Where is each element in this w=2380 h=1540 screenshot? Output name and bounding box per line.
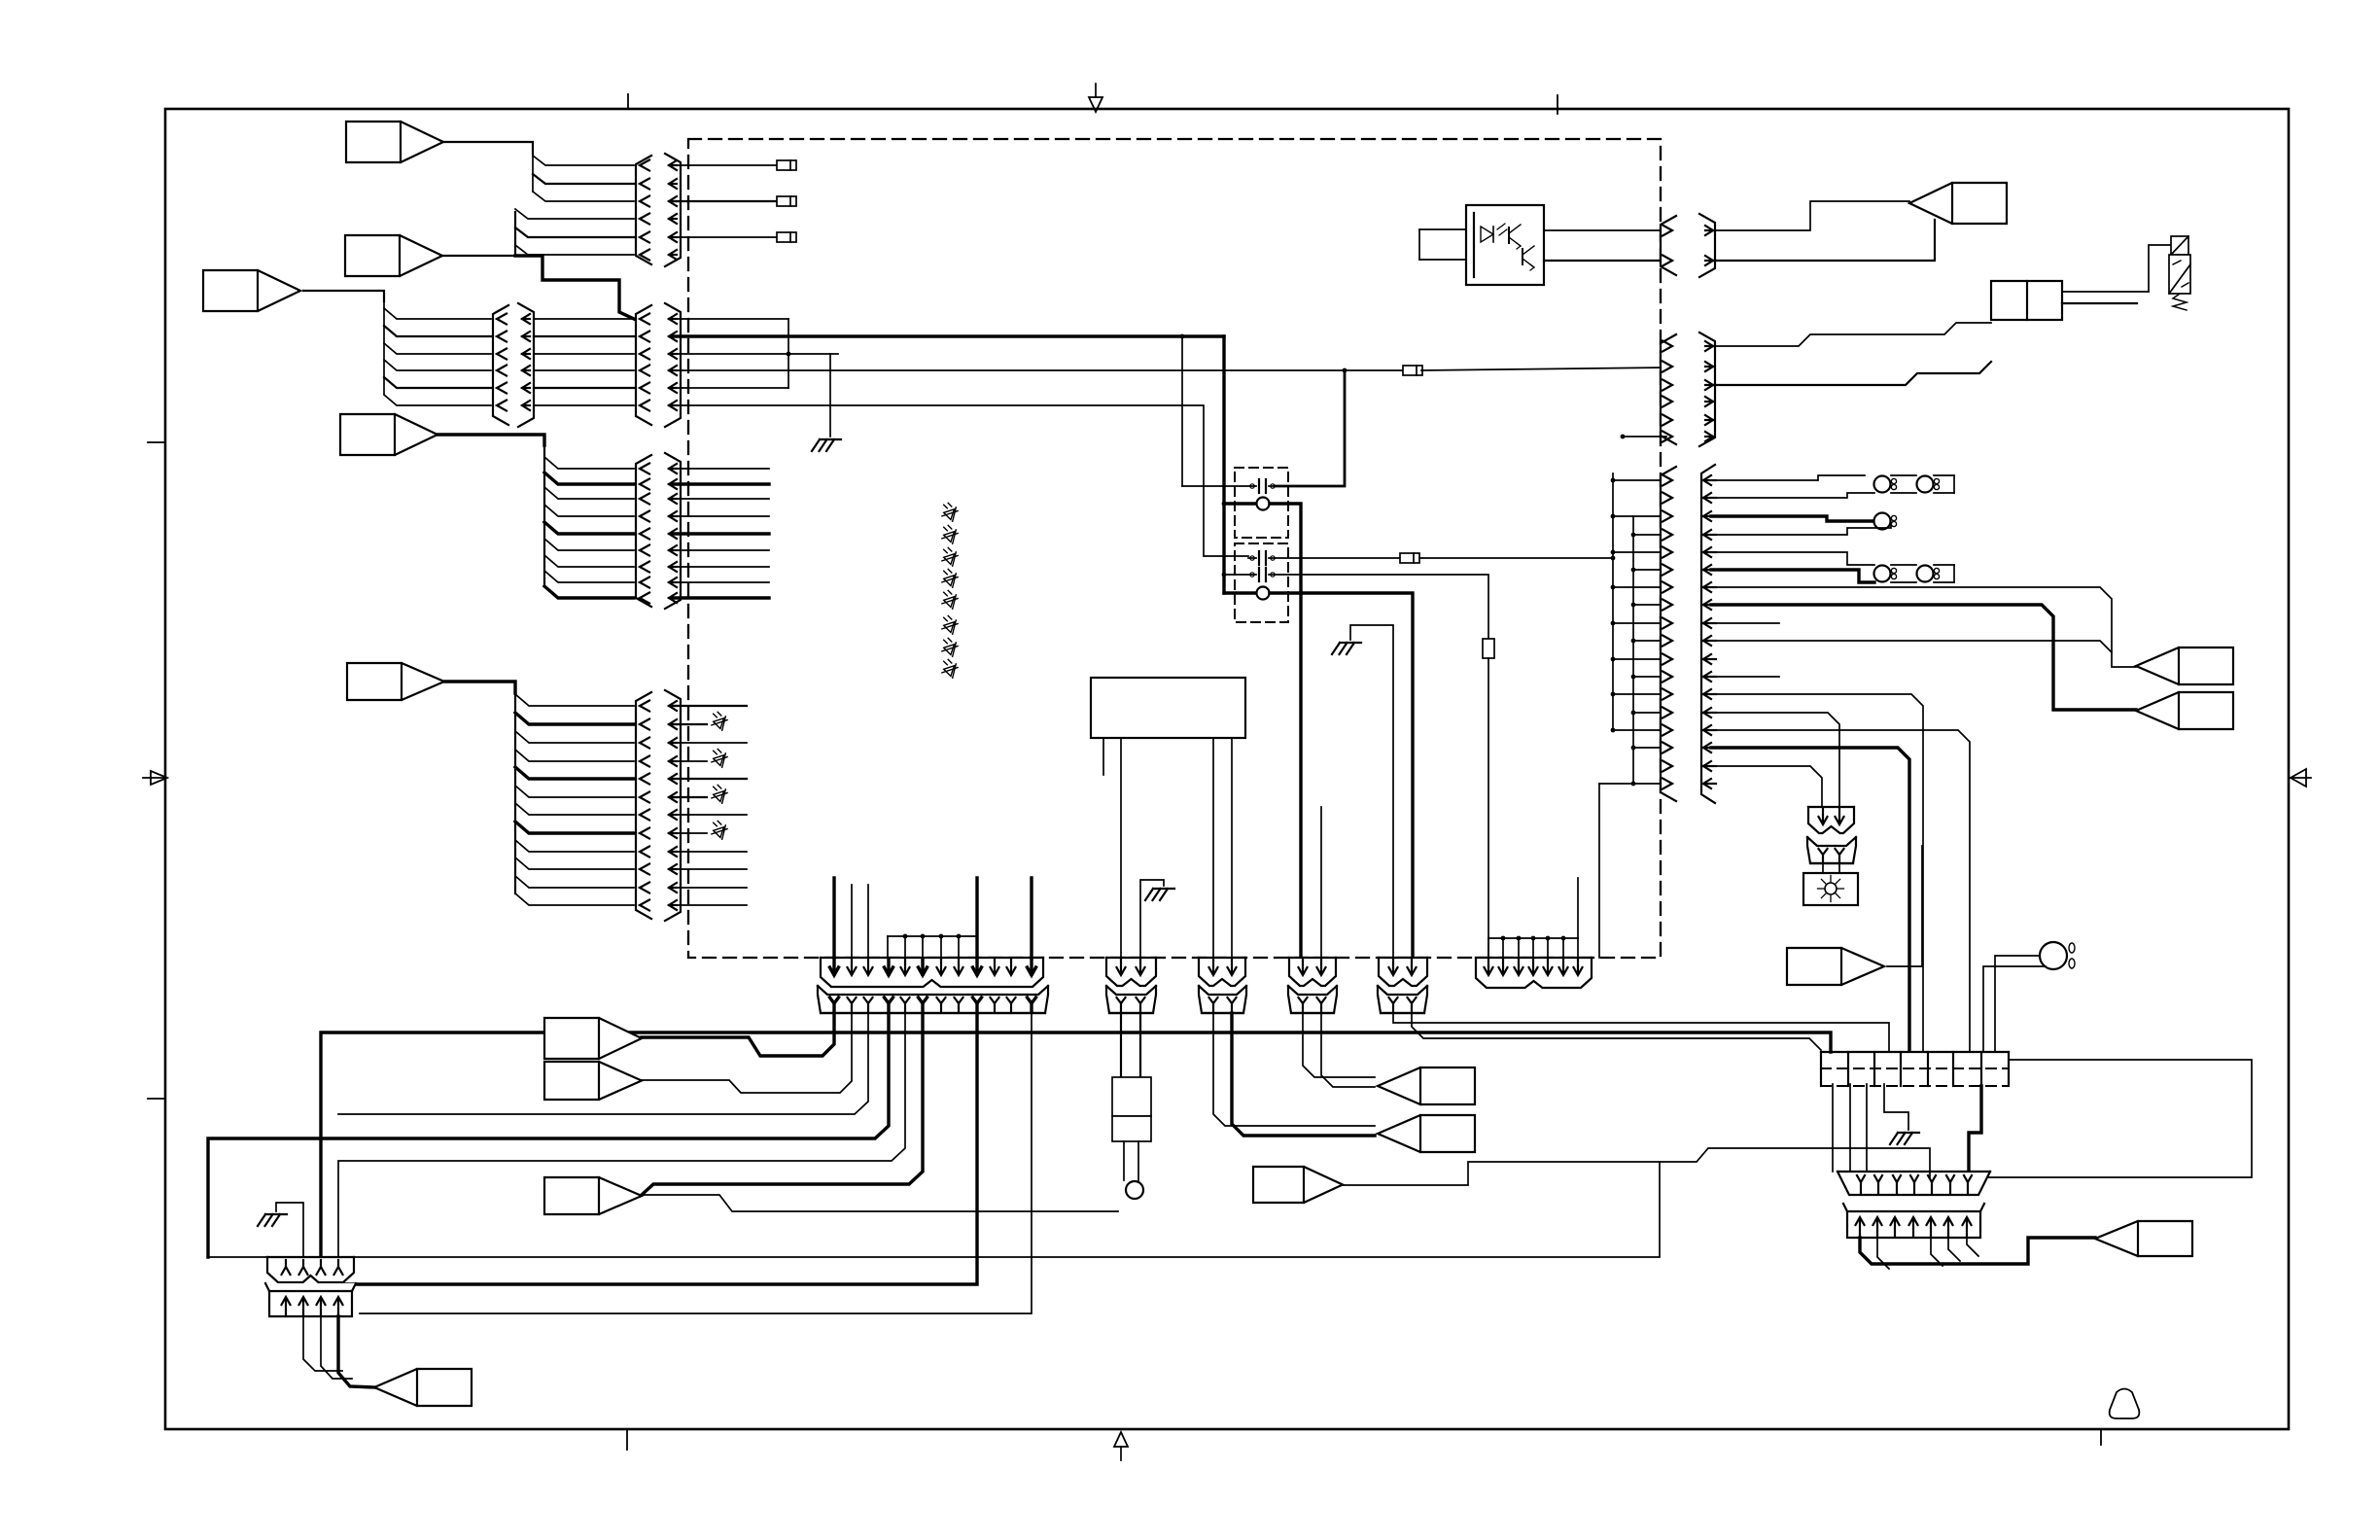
wire CN-C4-1 to terminal strip [1393,1013,1889,1052]
wire CN7-3 to M3 (thick) [1711,516,1874,521]
cable label W1 top-left [346,122,443,162]
wire bundle label W1 to CN1 [533,156,634,165]
connector CN11 (bottom right) [1837,1172,1990,1195]
wide connector CN-C5 [1476,958,1592,988]
fuse F4 [1483,639,1494,658]
connector CN4 plug [636,692,651,919]
temperature probe tip [1126,1181,1143,1199]
TB1 cell divider [1873,1052,1875,1086]
connector CN1 plug [636,156,651,264]
wire riser to thermal cutouts (thick) [1222,336,1225,593]
label W-A (mid bottom) [544,1018,642,1059]
risers into CN5a [832,878,835,958]
cable label W9 (fan feed) [1787,948,1884,985]
wire W13 to bus [1343,1148,1930,1185]
ground G4 hook [1884,1084,1908,1130]
TB1 cell divider [1820,1052,1822,1086]
U1 outputs to CN6 [1544,229,1664,231]
filter module dashed box lower [1235,543,1288,622]
wire W-A to CN5b-1 (thick) [642,1014,834,1056]
wire cap C-B to fuse holder R2 [1275,557,1400,559]
thermal cutout TH1 [1257,498,1270,510]
wire CN6-2 riser [1711,220,1935,261]
thermal cutout TH2 [1257,587,1270,600]
solid state relay U1 box [1466,205,1544,285]
wire net A3 with ground tap [673,353,838,355]
wire CN-C2-1 to label W12 [1213,1013,1375,1126]
connector CN13 (bottom left) [267,1257,354,1282]
wire CN7-17 drop to CN8 [1711,766,1822,807]
bus BB tap [1633,534,1666,536]
pump motor M1 [1874,476,1891,493]
wire CN1-5 to terminal [673,236,777,238]
bus BA tap [1613,658,1666,660]
indicator LED D10 [673,723,707,725]
relay K1 outputs to CN-C2 [1212,738,1214,958]
wire CN5b-6 to label W-C (thick) [642,1014,923,1195]
comb bus over CN-C5 [1488,937,1578,939]
wire CN-C3-2 to label W11 [1321,1013,1375,1087]
connector CN3 plug [636,455,651,607]
bus BA tap [1613,729,1666,731]
cable label W11 [1378,1067,1475,1104]
controller PCB dashed outline [688,139,1661,958]
stub wire CN7-12 [1716,676,1779,678]
cable label W7 (right) [2136,647,2233,684]
wire W-C lower branch [642,1195,1118,1211]
board LED D5 [944,597,955,608]
wire CN7-8 long to label W8 (thick) [1711,605,2136,710]
main bottom bus [208,1162,1660,1257]
capacitor C-A [1182,485,1256,487]
inline resistor R-B [1400,553,1419,563]
cable label W5 (row4 feed) [347,663,444,700]
wire CN7-16 drop to terminal strip (thick) [1711,748,1909,1052]
bus tap to CN10-6 [1623,436,1666,437]
probe leads [1123,1141,1125,1180]
wire CN7-1 to pump motors [1711,475,1865,480]
capacitor C-B [1248,557,1256,559]
wire fuse F2 to CN10-2 [1421,367,1666,370]
wire CN1-3 to terminal [673,200,777,202]
mini connector CN-C3 [1289,958,1336,986]
mini connector CN-C2 [1199,958,1245,986]
TB1 drops to CN11 [1832,1084,1834,1172]
pressure switch PS1 spring [2173,294,2187,310]
wires CN12 to label W10 [1860,1238,2095,1264]
wire CN10-3 to junction box [1711,362,1991,385]
wire R-B to bus BA [1419,557,1613,559]
frame tick left upper [148,441,165,443]
ground G1 [820,438,841,440]
bus BB tap [1633,640,1666,642]
wire CN10-1 to junction box [1711,323,1991,346]
wires X1 to pressure switch PS1 [2062,291,2149,293]
connector CN5b wide mate [818,986,1048,995]
frame alignment arrow right center [2289,777,2311,779]
wire CN5b-5 long left [338,1014,905,1257]
pump motor M3 [1874,513,1891,530]
U1 output transistor Q2 [1522,249,1523,264]
wire CN5b-12 long left [360,1014,1032,1313]
relay unit K1 box [1091,678,1245,738]
service mark triangle [2110,1389,2140,1419]
ground G4 [1898,1132,1919,1134]
pressure switch PS1 body [2169,255,2190,294]
TH1 left lead [1224,502,1254,505]
long bus bottom (thick) [321,1032,1831,1257]
connector CN10 plug [1661,334,1676,444]
stub wires CN3 to board [673,468,769,470]
condenser fan FM1 [2040,942,2067,969]
wire cap C-C to fuse F4 [1275,575,1488,639]
frame alignment arrow top center [1095,84,1097,97]
board LED D6 [944,622,955,633]
bus BA tap [1613,622,1666,624]
board LED D2 [944,532,955,542]
pump motor M5 [1917,566,1934,582]
lamp LP1 [1825,883,1837,894]
bus BB tap [1633,712,1666,714]
bus BB tap [1633,604,1666,606]
terminal strip TB1 [1821,1052,2009,1086]
capsule M4-M5 [1891,564,1916,566]
cable label W12 [1378,1115,1475,1152]
wire CN7-13 drop to terminal strip [1711,694,1923,1052]
wire CN7-4 to M3 return [1711,525,1891,535]
mini connector CN-C1 [1106,958,1156,986]
wire label W9 riser [1887,846,1922,966]
wire CN5b-4 long left (thick) [208,1014,889,1257]
pump motor M4 [1874,566,1891,582]
TB1 cell divider [1980,1052,1982,1086]
wire riser to filter cap C-A [1181,336,1183,486]
connector CN10 receptacle [1699,332,1715,446]
terminal lug J3 [777,232,796,242]
bus BA tap [1613,551,1666,553]
wire bundle label W2 to CN1 [442,212,515,256]
wire net A4 to fuse F2 [673,369,1403,371]
TB1 cell divider [1847,1052,1849,1086]
board LED D7 [944,645,955,655]
bus BB tap [1633,783,1666,785]
connector CN2b plug [636,305,651,425]
ground G5 [265,1213,287,1215]
mini connector CN-C3 mate [1288,986,1337,995]
board LED D4 [944,576,955,586]
cable label W3 [203,270,300,311]
connector CN8 mate [1807,837,1856,846]
TB1 cell divider [1900,1052,1902,1086]
mini connector CN-C1 mate [1106,986,1156,995]
TB1 cell divider [1952,1052,1954,1086]
label W13 (lower mid) [1253,1167,1343,1203]
drawing frame border [165,109,2289,1429]
frame tick top left-quarter [627,94,629,109]
bus BA tap [1613,479,1666,481]
bus BA tap [1613,586,1666,588]
TB1 drop right (thick) [1969,1086,1981,1178]
riser above CN-C3 pin2 [1320,807,1322,958]
connector CN3 receptacle [665,453,681,609]
U1 input stubs [1419,228,1466,230]
bus BB exit bottom [1599,783,1633,785]
connector CN6 plug [1661,216,1676,275]
TH2 left lead [1224,591,1254,594]
frame alignment arrow left center [143,777,165,779]
indicator LED D13 [673,832,707,834]
wire from label W1 [443,142,533,154]
connector CN2b receptacle [665,303,681,427]
label W-C [544,1177,642,1214]
indicator LED D11 [673,760,707,762]
frame tick bottom right [2100,1429,2102,1445]
frame alignment arrow bottom center [1120,1447,1122,1460]
cable label W4 (row3 feed) [340,414,437,455]
wire CN1-1 to terminal [673,164,777,166]
relay K1 pin stub [1102,738,1104,775]
lamp unit box [1822,863,1824,873]
terminal lug J2 [777,196,796,206]
riser above CN-C5 pin7 [1577,878,1579,938]
wire CN7-5 to M4 upper [1711,552,1874,565]
wire W-B to CN5b-2 [642,1014,852,1093]
connector CN2a receptacle [518,303,534,427]
ground G1 stem [829,354,831,437]
wires CN14 to label W14 (thick) [303,1316,342,1371]
capsule M1-M2 [1891,474,1916,476]
cable label W2 [345,235,442,276]
ground G5 hook [276,1203,303,1257]
wire CN-C3-1 to label W11 [1303,1013,1375,1077]
connector CN12 (bottom right mate) [1843,1204,1984,1238]
right loop wire [1985,1060,2252,1177]
label W-B [544,1062,642,1100]
connector CN4 receptacle [665,690,681,921]
TH1 lead right (thick) [1270,504,1301,958]
wire CN7-10 joins W7 riser [1711,641,2112,652]
wire net A5 [673,387,788,389]
wire bundle label W3 to CN2 [303,291,384,301]
connector CN5a wide (PCB bottom) [821,958,1043,987]
connector CN7 plug [1661,467,1676,801]
wire F4 down to CN-C5 [1487,658,1489,958]
wire CN6-1 to label W6 [1711,201,1909,230]
bus bar BB left of CN7 [1632,516,1634,784]
inline fuse F2 [1403,366,1422,375]
wire CN5b-3 long left [338,1014,868,1114]
connector CN1 receptacle [665,154,681,266]
ground G3 [1153,888,1174,890]
wire CN-C4-2 to terminal strip [1412,1013,1821,1050]
capacitor C-C [1224,574,1256,576]
bus BA tap [1613,693,1666,695]
U1 phototransistor Q1 [1508,227,1510,243]
wire CN7-15 drop to terminal strip [1711,730,1970,1052]
capacitor C-A return riser (thick) [1275,370,1345,486]
frame tick bottom left-quarter [626,1429,628,1450]
terminal lug J1 [777,160,796,170]
board LED D8 [944,666,955,677]
fuse holder F1 body [1112,1077,1151,1116]
ground G3 hook [1140,880,1164,958]
cable label W8 (right) [2136,692,2233,729]
TB1 cell divider [1927,1052,1929,1086]
bus BB tap [1633,676,1666,678]
bus bar BA left of CN7 [1612,473,1614,730]
frame tick left lower [148,1098,165,1100]
cable label W6 (top right) [1909,183,2007,224]
U1 input LED [1481,227,1493,242]
indicator LED D12 [673,796,707,798]
connector CN6 receptacle [1699,214,1715,277]
wire bundle label W5 to CN4 [445,682,515,693]
connector CN8 plug (lamp) [1808,807,1854,833]
connector CN2a plug [493,305,508,425]
pressure switch PS1 coil [2171,236,2188,255]
relay K1 output to CN-C1 [1120,738,1122,958]
interconnect wires CN2a-CN2b [534,318,634,320]
cable label W14 (bottom left) [374,1369,472,1406]
wire CN7-6 to M4 lower (thick) [1711,570,1874,582]
TH2 lead right to CN-C4 (thick) [1270,593,1413,958]
connector CN7 receptacle [1701,465,1715,803]
mini connector CN-C4 mate [1378,986,1427,995]
bus BB tap [1633,569,1666,571]
wire CN5b-9 long left (thick) [338,1014,977,1291]
pump motor M2 [1917,476,1934,493]
filter module dashed box upper [1235,468,1288,538]
board LED D1 [944,509,955,520]
ground G2 (center right) [1350,625,1393,958]
junction box X1 [1991,281,2062,320]
board LED D3 [944,554,955,565]
connector CN14 (bottom left mate) [265,1283,356,1316]
wire label W2 branch down to CN2 row [515,256,634,319]
wire net PWR (CN2b-2 thick) [673,334,1224,337]
fuse holder leads [1120,1013,1122,1077]
wire CN-C2-2 to label W12 (thick) [1232,1013,1375,1136]
fan FM1 wires to strip [1995,956,2040,1052]
comb bus over CN5a [888,935,977,937]
wire CN7-7 long to label W7 [1711,587,2136,667]
mini connector CN-C2 mate [1199,986,1246,995]
bus BB tap [1633,747,1666,749]
wire bundle label W4 to CN3 [437,435,544,445]
frame tick top right-quarter [1557,95,1558,114]
wire net A6 to cap C-B [673,405,1248,556]
wire net A1 (CN2b-1) [673,318,788,320]
bus BA tap [1613,515,1666,517]
mini connector CN-C4 [1379,958,1427,986]
cable label W10 (bottom right) [2095,1221,2192,1256]
stub wire CN7-9 [1716,622,1779,624]
TB1 cell divider [2008,1052,2010,1086]
wire CN7-14 drop to CN8 [1711,713,1839,807]
wire junction riser A1-A3 [787,319,789,388]
wire CN7-2 to M1 lower [1711,493,1874,498]
stub wires CN4 outputs [673,705,747,707]
